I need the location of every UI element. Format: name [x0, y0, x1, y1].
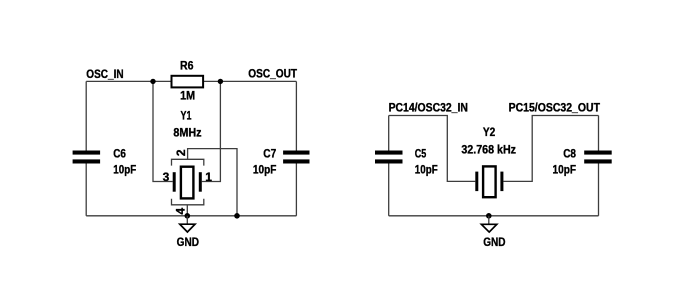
wire: right circuit ground rail — [389, 215, 599, 217]
svg-text:C7: C7 — [263, 146, 276, 160]
svg-text:8MHz: 8MHz — [173, 126, 201, 140]
svg-text:32.768 kHz: 32.768 kHz — [461, 143, 516, 157]
svg-text:3: 3 — [163, 170, 170, 184]
svg-text:C6: C6 — [113, 146, 126, 160]
capacitor C7 — [283, 151, 309, 155]
wire: right vertical from PC15 rail to C8 top plate — [598, 116, 600, 151]
node: right circuit ground junction — [486, 213, 492, 219]
wire: left circuit ground rail — [86, 215, 296, 217]
svg-text:2: 2 — [174, 149, 188, 156]
svg-text:1: 1 — [205, 170, 212, 184]
crystal Y1 body — [181, 167, 194, 199]
wire: crystal pin 2 (case top) to ground rail — [188, 149, 237, 216]
svg-text:PC15/OSC32_OUT: PC15/OSC32_OUT — [509, 101, 601, 115]
node: OSC_IN junction — [150, 79, 155, 84]
svg-text:10pF: 10pF — [113, 162, 136, 176]
svg-text:OSC_IN: OSC_IN — [86, 67, 123, 81]
wire: left vertical from PC14 rail to C5 top plate — [388, 116, 390, 151]
svg-text:R6: R6 — [180, 58, 194, 72]
svg-text:10pF: 10pF — [415, 162, 438, 176]
svg-text:10pF: 10pF — [553, 162, 577, 176]
svg-text:GND: GND — [483, 235, 506, 249]
wire: left vertical from top rail to C6 top plate — [85, 81, 87, 150]
crystal Y1 right electrode plate — [199, 172, 202, 192]
crystal Y2 left electrode plate — [475, 172, 478, 192]
svg-text:Y2: Y2 — [483, 125, 496, 139]
svg-text:10pF: 10pF — [253, 162, 277, 176]
node: ground junction under crystal pin 4 — [185, 213, 191, 219]
svg-text:4: 4 — [174, 208, 188, 215]
svg-text:C8: C8 — [563, 146, 576, 160]
wire: PC14/OSC32_IN net to crystal left pin — [389, 116, 476, 182]
wire: OSC_OUT branch down to crystal pin 1 — [202, 81, 221, 181]
crystal Y2 right electrode plate — [500, 172, 503, 192]
capacitor C6 — [73, 151, 101, 155]
wire: OSC_IN branch down to crystal pin 3 — [153, 81, 173, 181]
resistor R6 — [172, 76, 204, 88]
svg-text:1M: 1M — [180, 89, 195, 103]
capacitor C8 — [584, 151, 612, 155]
wire: ground stub (right) — [488, 216, 490, 224]
svg-text:PC14/OSC32_IN: PC14/OSC32_IN — [389, 101, 468, 115]
crystal Y1 case bottom bracket — [172, 199, 204, 205]
svg-text:OSC_OUT: OSC_OUT — [248, 67, 297, 81]
node: OSC_OUT junction — [218, 79, 223, 84]
svg-text:C5: C5 — [415, 146, 427, 160]
ground (right) — [481, 224, 496, 232]
crystal Y1 case top bracket — [172, 159, 204, 165]
wire: crystal pin 4 (case bottom) to ground rail — [186, 205, 188, 216]
wire: right vertical from C7 bottom plate to ground rail — [295, 164, 297, 216]
node: ground junction of pin-2 branch — [234, 213, 240, 219]
wire: PC15/OSC32_OUT net to crystal right pin — [503, 116, 598, 182]
crystal Y2 body — [483, 166, 496, 197]
wire: OSC_IN/OSC_OUT top rail — [86, 80, 296, 82]
wire: right vertical from top rail to C7 top plate — [295, 81, 297, 150]
svg-text:GND: GND — [177, 235, 200, 249]
wire: left vertical from C5 bottom plate to ground rail — [388, 164, 390, 216]
wire: right vertical from C8 bottom plate to ground rail — [598, 164, 600, 216]
capacitor C5 — [375, 151, 403, 155]
wire: ground stub (left) — [186, 216, 188, 224]
ground (left) — [180, 224, 195, 232]
svg-text:Y1: Y1 — [181, 109, 192, 123]
crystal Y1 left electrode plate — [173, 172, 176, 192]
wire: left vertical from C6 bottom plate to ground rail — [85, 164, 87, 216]
